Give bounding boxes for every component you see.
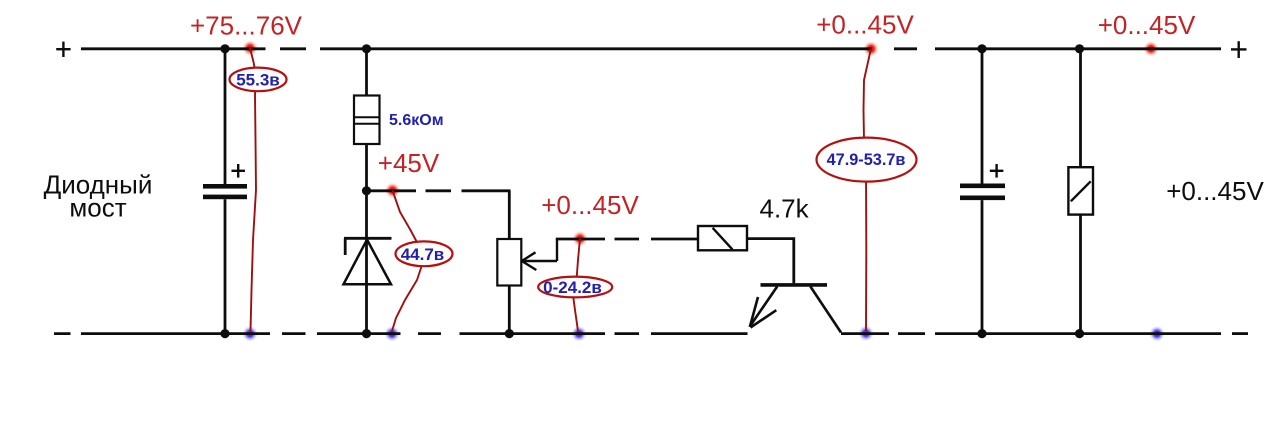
- probe annotation line 1 (55.3в): [250, 48, 256, 331]
- junction node bottom rail / C2: [977, 329, 986, 338]
- potentiometer R2 body: [497, 239, 521, 286]
- zener diode VD1 cathode bar: [344, 237, 392, 240]
- capacitor C2 polarity +: [990, 164, 1004, 178]
- transistor Q1 emitter with arrow: [750, 287, 777, 328]
- transistor Q1 base bar: [761, 283, 828, 287]
- probe annotation line 3 (0-24.2в): [573, 239, 580, 332]
- probe dot blue bottom rail 3: [571, 326, 587, 342]
- resistor R1 wire top: [365, 49, 368, 96]
- svg-text:+0...45V: +0...45V: [1166, 176, 1264, 206]
- wire bottom rail solid 2: [317, 332, 401, 335]
- probe dot red node wiper: [572, 231, 588, 247]
- wire wiper output solid 1: [556, 238, 605, 241]
- junction node bottom rail / VD1: [362, 329, 371, 338]
- terminal - (bottom right): [1232, 332, 1248, 335]
- varistor RU1 wire bottom: [1079, 215, 1082, 334]
- capacitor C1 wire top: [224, 49, 227, 184]
- wire top rail solid 1: [81, 47, 266, 50]
- wire wiper output solid 2: [651, 238, 698, 241]
- probe dot blue bottom rail 2: [384, 326, 400, 342]
- capacitor C2 wire bottom: [981, 200, 984, 334]
- measurement bubble 55.3в: [230, 68, 287, 92]
- svg-text:5.6кОм: 5.6кОм: [389, 112, 444, 129]
- svg-text:47.9-53.7в: 47.9-53.7в: [827, 151, 906, 169]
- wire bottom rail dash 3: [615, 332, 640, 335]
- capacitor C1 wire bottom: [224, 199, 227, 333]
- probe annotation line 4 (47.9-53.7в): [864, 49, 872, 332]
- wire bottom rail solid 4 (to emitter): [651, 332, 748, 335]
- svg-text:мост: мост: [69, 193, 126, 223]
- junction node top rail / C2: [977, 44, 986, 53]
- wire R3 to transistor base: [747, 239, 794, 284]
- capacitor C1 polarity +: [232, 164, 246, 178]
- svg-text:+0...45V: +0...45V: [1098, 10, 1196, 40]
- zener diode VD1 triangle: [344, 240, 392, 285]
- wire node +45V dash: [426, 189, 452, 192]
- wire top rail solid 2: [320, 47, 872, 50]
- wire bottom rail solid 5 (from collector): [841, 332, 889, 335]
- wire bottom rail solid 1: [81, 332, 270, 335]
- svg-text:44.7в: 44.7в: [401, 245, 445, 264]
- wire bottom rail dash 4: [898, 332, 925, 335]
- terminal - (bottom left): [54, 332, 71, 335]
- svg-text:+45V: +45V: [378, 148, 440, 178]
- measurement bubble 47.9-53.7в: [817, 138, 917, 182]
- zener diode VD1 wire (through): [365, 191, 368, 334]
- svg-text:55.3в: 55.3в: [236, 71, 280, 90]
- wire bottom rail solid 3: [460, 332, 606, 335]
- potentiometer R2 wiper arrow: [522, 239, 557, 270]
- wire bottom rail dash 1: [282, 332, 306, 335]
- svg-text:+75...76V: +75...76V: [190, 11, 303, 41]
- wire top rail dash 1: [280, 47, 306, 50]
- probe dot blue bottom rail 1: [242, 326, 258, 342]
- junction node bottom rail / RU1: [1075, 329, 1084, 338]
- measurement bubble 44.7в: [396, 241, 453, 266]
- probe dot red node top rail 1: [242, 40, 258, 56]
- svg-text:+0...45V: +0...45V: [816, 10, 914, 40]
- wire bottom rail solid 6: [935, 332, 1221, 335]
- wire node +45V solid 2 with corner down to potentiometer: [462, 189, 511, 192]
- resistor R3 4.7k body: [698, 226, 747, 250]
- probe dot red node top rail 3: [1143, 41, 1159, 57]
- junction node bottom rail / R2: [505, 329, 514, 338]
- wire top rail dash 2: [894, 47, 917, 50]
- terminal + (top left): [56, 42, 70, 57]
- terminal + (top right): [1231, 41, 1247, 58]
- transistor Q1 collector: [810, 287, 841, 333]
- svg-text:0-24.2в: 0-24.2в: [543, 278, 602, 297]
- svg-text:+0...45V: +0...45V: [541, 190, 639, 220]
- wire wiper output dash: [615, 238, 640, 241]
- wire bottom rail dash 2: [418, 332, 441, 335]
- probe dot blue bottom rail 4: [858, 325, 874, 341]
- probe annotation line 2 (44.7в): [392, 191, 423, 332]
- junction node top rail / R1: [362, 44, 371, 53]
- probe dot red node top rail 2: [863, 41, 879, 57]
- svg-text:4.7k: 4.7k: [760, 194, 810, 224]
- resistor R1 body 5.6kOm: [354, 96, 380, 145]
- capacitor C1 plates: [203, 184, 247, 189]
- junction node bottom rail / C1: [220, 329, 229, 338]
- varistor RU1 body: [1068, 167, 1093, 214]
- junction node top rail / RU1: [1075, 44, 1084, 53]
- varistor RU1 wire top: [1079, 49, 1082, 167]
- resistor R1 wire bottom: [365, 144, 368, 191]
- junction node +45V: [362, 186, 371, 195]
- measurement bubble 0-24.2в: [538, 277, 612, 298]
- capacitor C2 plates: [960, 184, 1005, 189]
- junction node top rail / C1: [220, 44, 229, 53]
- probe dot red node +45V: [385, 182, 401, 198]
- probe dot blue bottom rail 5: [1149, 326, 1165, 342]
- wire top rail solid 3: [935, 47, 1221, 50]
- capacitor C2 wire top: [981, 49, 984, 184]
- potentiometer R2 wire bottom: [508, 286, 511, 334]
- wire node +45V solid 1: [367, 189, 417, 192]
